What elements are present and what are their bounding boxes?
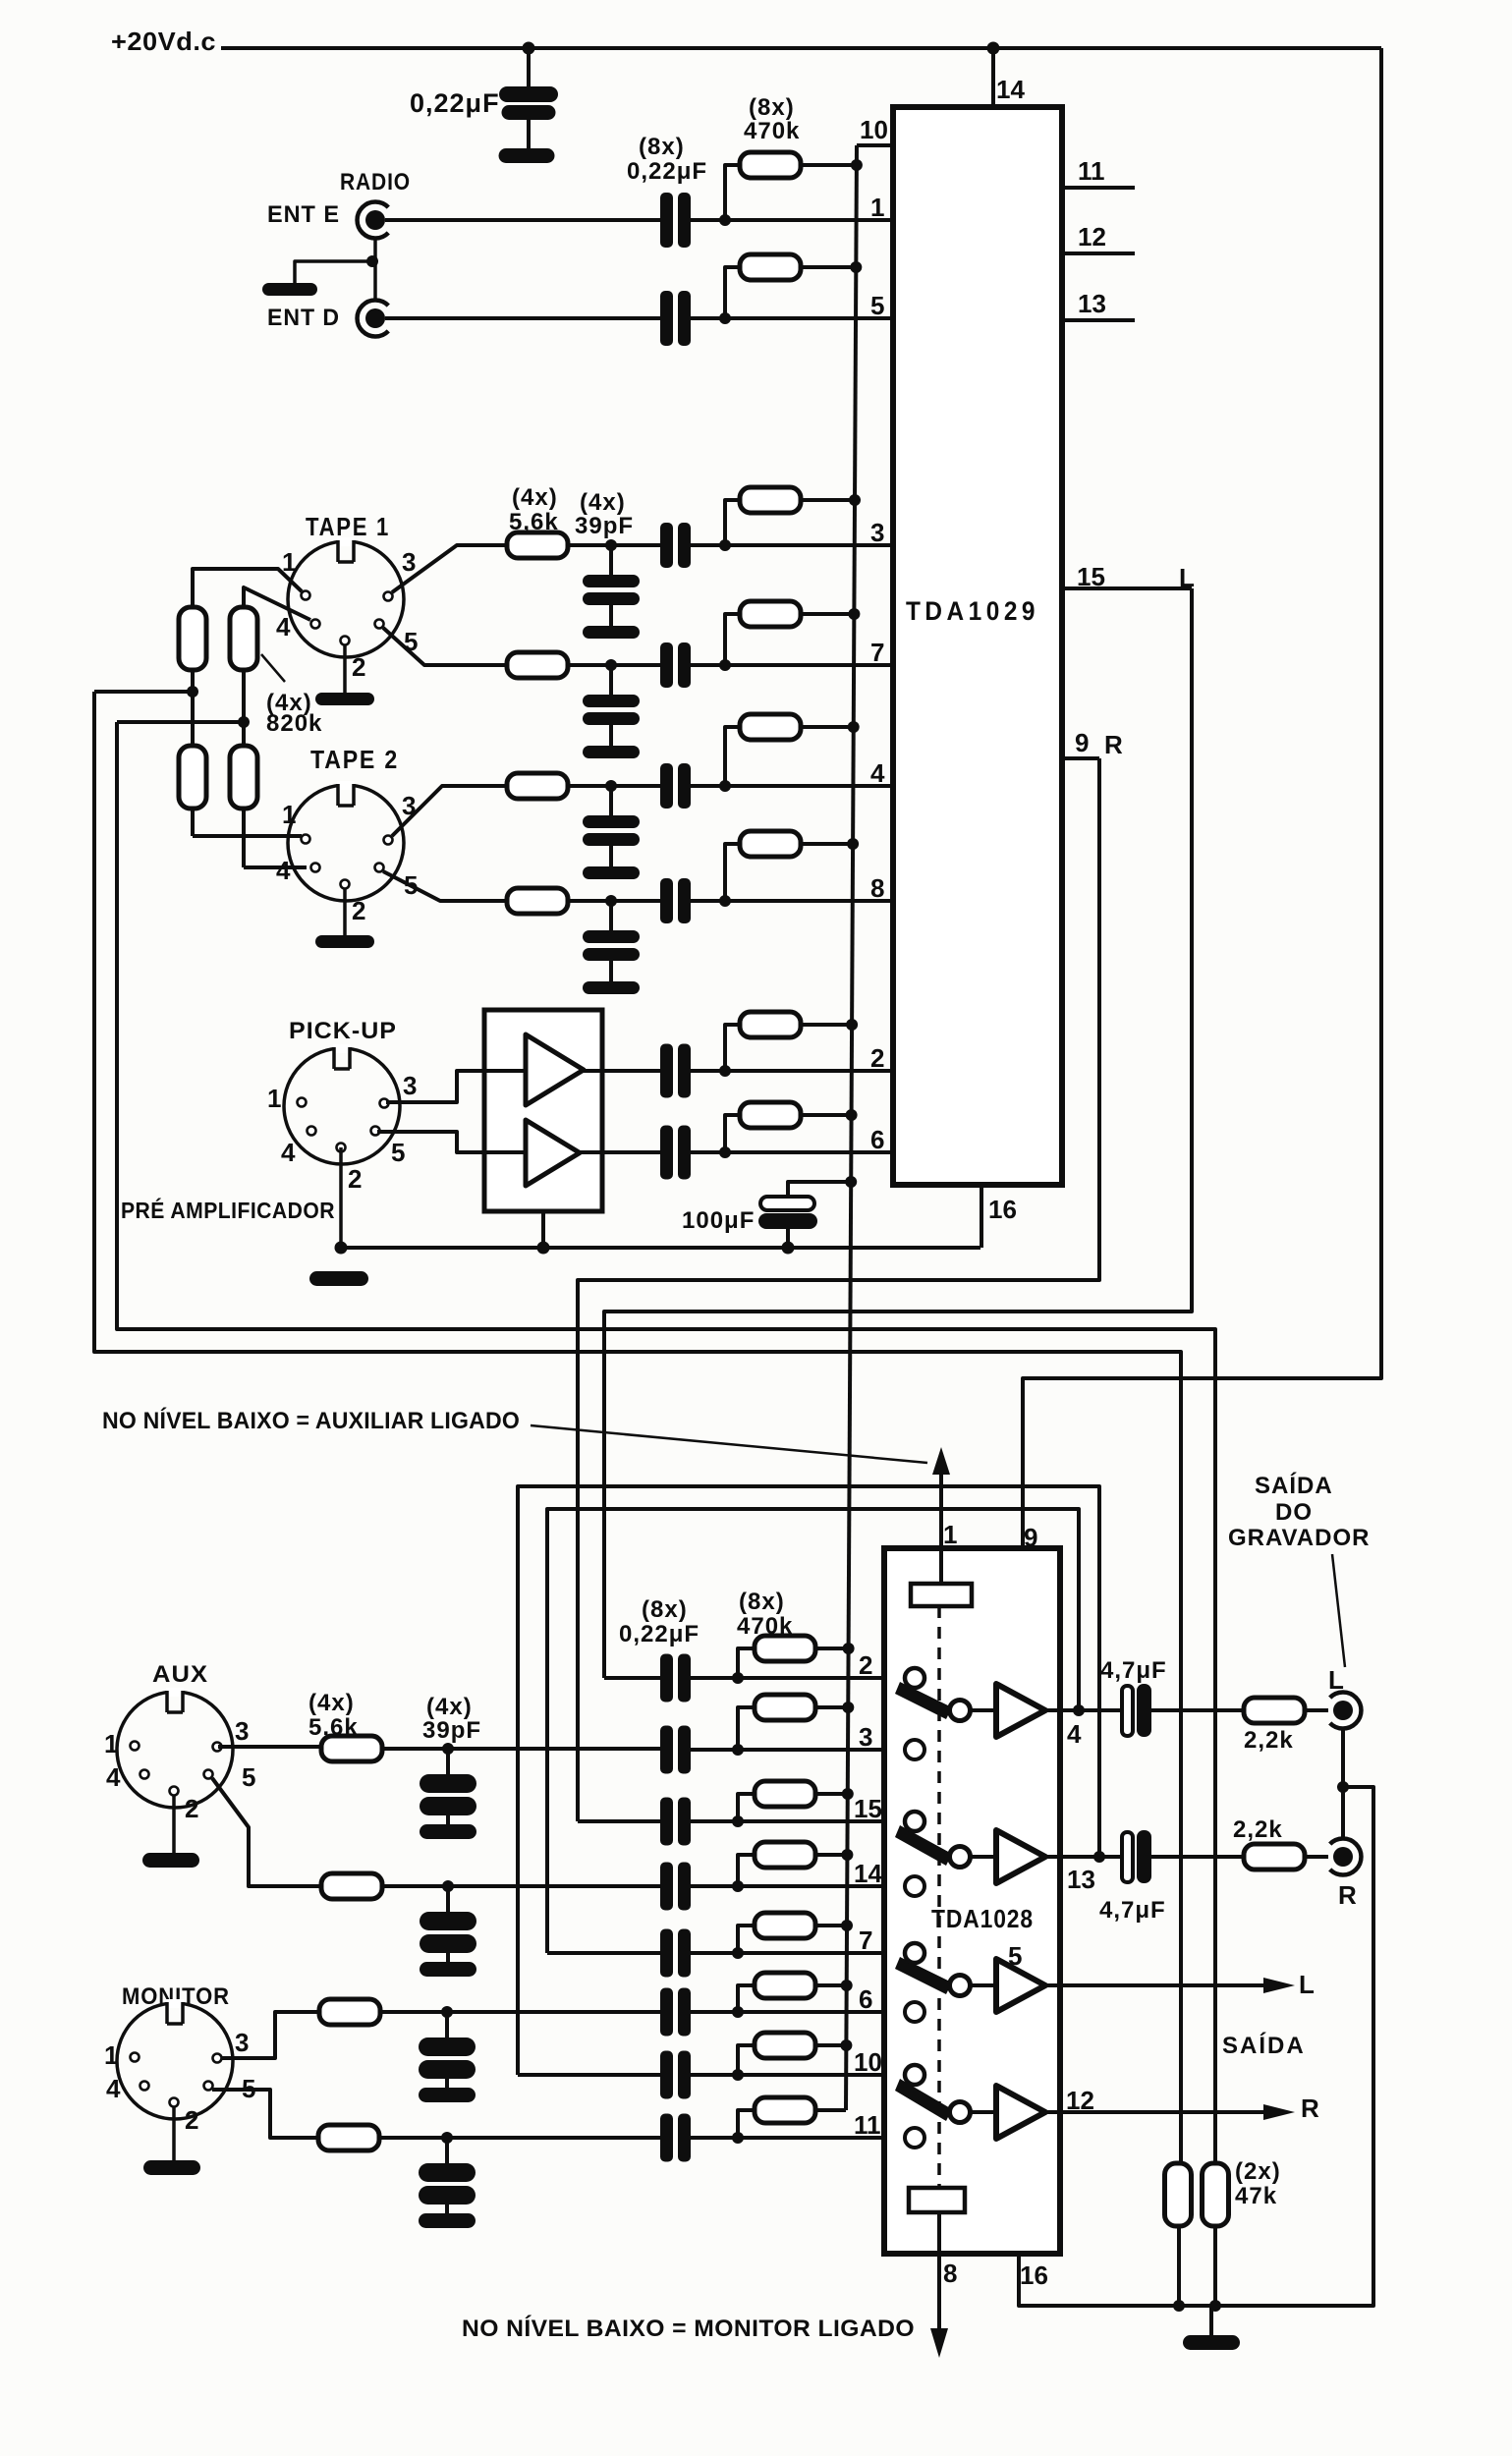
svg-text:NO NÍVEL BAIXO = AUXILIAR LIGA: NO NÍVEL BAIXO = AUXILIAR LIGADO <box>102 1407 520 1434</box>
svg-text:1: 1 <box>943 1520 957 1549</box>
svg-text:R: R <box>1338 1880 1357 1910</box>
svg-text:(8x): (8x) <box>642 1596 688 1623</box>
svg-text:ENT E: ENT E <box>267 201 340 228</box>
svg-text:(2x): (2x) <box>1235 2158 1281 2185</box>
svg-text:15: 15 <box>854 1794 882 1823</box>
svg-text:1: 1 <box>870 193 884 222</box>
svg-text:2: 2 <box>352 896 365 925</box>
svg-text:47k: 47k <box>1235 2183 1277 2209</box>
svg-text:10: 10 <box>854 2047 882 2077</box>
svg-text:10: 10 <box>860 115 888 144</box>
svg-text:4: 4 <box>276 612 291 642</box>
svg-text:15: 15 <box>1077 562 1105 591</box>
svg-text:NO NÍVEL BAIXO = MONITOR LIGAD: NO NÍVEL BAIXO = MONITOR LIGADO <box>462 2315 915 2342</box>
svg-text:4: 4 <box>106 2074 121 2103</box>
svg-text:16: 16 <box>1020 2261 1048 2290</box>
svg-text:9: 9 <box>1075 728 1089 757</box>
svg-text:11: 11 <box>854 2110 881 2140</box>
svg-text:5: 5 <box>242 1762 255 1792</box>
svg-text:2: 2 <box>859 1650 872 1680</box>
svg-text:(4x): (4x) <box>426 1694 473 1720</box>
svg-text:5: 5 <box>870 291 884 320</box>
svg-text:L: L <box>1328 1665 1344 1695</box>
svg-text:9: 9 <box>1024 1523 1037 1552</box>
svg-text:(4x): (4x) <box>580 489 626 516</box>
svg-text:7: 7 <box>859 1926 872 1955</box>
svg-text:2: 2 <box>185 2105 198 2135</box>
svg-text:1: 1 <box>104 1729 118 1758</box>
svg-text:R: R <box>1104 730 1123 759</box>
svg-text:(4x): (4x) <box>308 1690 355 1716</box>
svg-text:2: 2 <box>185 1794 198 1823</box>
svg-text:100μF: 100μF <box>682 1207 755 1234</box>
svg-text:TDA1028: TDA1028 <box>931 1904 1034 1933</box>
svg-text:11: 11 <box>1078 156 1105 186</box>
svg-text:2: 2 <box>352 652 365 682</box>
svg-text:4: 4 <box>1067 1719 1082 1749</box>
svg-text:0,22μF: 0,22μF <box>619 1621 700 1647</box>
svg-text:13: 13 <box>1078 289 1106 318</box>
svg-text:12: 12 <box>1066 2086 1094 2115</box>
svg-text:5: 5 <box>391 1138 405 1167</box>
svg-text:470k: 470k <box>744 118 800 144</box>
svg-text:TAPE 2: TAPE 2 <box>310 745 399 774</box>
svg-text:PICK-UP: PICK-UP <box>289 1018 397 1044</box>
svg-text:5,6k: 5,6k <box>308 1714 359 1741</box>
svg-text:16: 16 <box>988 1195 1017 1224</box>
svg-text:GRAVADOR: GRAVADOR <box>1228 1525 1370 1551</box>
svg-text:TAPE 1: TAPE 1 <box>306 512 390 541</box>
svg-text:2,2k: 2,2k <box>1233 1816 1283 1843</box>
svg-text:4: 4 <box>870 758 885 788</box>
svg-text:PRÉ AMPLIFICADOR: PRÉ AMPLIFICADOR <box>121 1197 335 1223</box>
svg-text:3: 3 <box>402 547 416 577</box>
svg-text:4: 4 <box>281 1138 296 1167</box>
svg-text:1: 1 <box>267 1084 281 1113</box>
svg-text:5: 5 <box>1008 1941 1022 1971</box>
svg-text:39pF: 39pF <box>575 513 634 539</box>
svg-text:DO: DO <box>1275 1499 1313 1526</box>
svg-text:4: 4 <box>276 856 291 885</box>
svg-text:ENT D: ENT D <box>267 305 340 331</box>
svg-text:3: 3 <box>235 2028 249 2057</box>
svg-text:13: 13 <box>1067 1865 1095 1894</box>
svg-text:8: 8 <box>943 2259 957 2288</box>
svg-text:0,22μF: 0,22μF <box>410 88 500 118</box>
svg-text:AUX: AUX <box>152 1661 208 1688</box>
svg-text:14: 14 <box>854 1859 882 1888</box>
svg-text:+20Vd.c: +20Vd.c <box>111 27 216 56</box>
svg-text:4: 4 <box>106 1762 121 1792</box>
svg-text:TDA1029: TDA1029 <box>906 596 1039 626</box>
svg-text:(4x): (4x) <box>512 484 558 511</box>
svg-text:R: R <box>1301 2093 1319 2123</box>
svg-text:2,2k: 2,2k <box>1244 1727 1294 1754</box>
svg-text:39pF: 39pF <box>422 1717 481 1744</box>
svg-text:2: 2 <box>348 1164 362 1194</box>
svg-text:4,7μF: 4,7μF <box>1100 1657 1167 1684</box>
svg-text:14: 14 <box>996 75 1025 104</box>
svg-text:0,22μF: 0,22μF <box>627 158 707 185</box>
svg-text:SAÍDA: SAÍDA <box>1255 1472 1333 1499</box>
svg-text:(8x): (8x) <box>749 94 795 121</box>
svg-text:SAÍDA: SAÍDA <box>1222 2032 1306 2059</box>
svg-text:12: 12 <box>1078 222 1106 251</box>
svg-text:2: 2 <box>870 1043 884 1073</box>
svg-text:820k: 820k <box>266 710 322 737</box>
svg-text:3: 3 <box>859 1722 872 1752</box>
svg-text:3: 3 <box>235 1716 249 1746</box>
svg-text:6: 6 <box>870 1125 884 1154</box>
svg-text:3: 3 <box>870 518 884 547</box>
svg-text:1: 1 <box>104 2040 118 2070</box>
svg-text:4,7μF: 4,7μF <box>1099 1897 1166 1924</box>
svg-text:RADIO: RADIO <box>340 169 411 195</box>
svg-text:1: 1 <box>282 800 296 829</box>
svg-text:(8x): (8x) <box>739 1589 785 1615</box>
svg-text:L: L <box>1179 563 1195 592</box>
svg-text:(8x): (8x) <box>639 134 685 160</box>
svg-text:3: 3 <box>403 1071 417 1100</box>
svg-text:L: L <box>1299 1970 1315 1999</box>
svg-text:6: 6 <box>859 1984 872 2014</box>
svg-text:7: 7 <box>870 638 884 667</box>
svg-text:8: 8 <box>870 873 884 903</box>
